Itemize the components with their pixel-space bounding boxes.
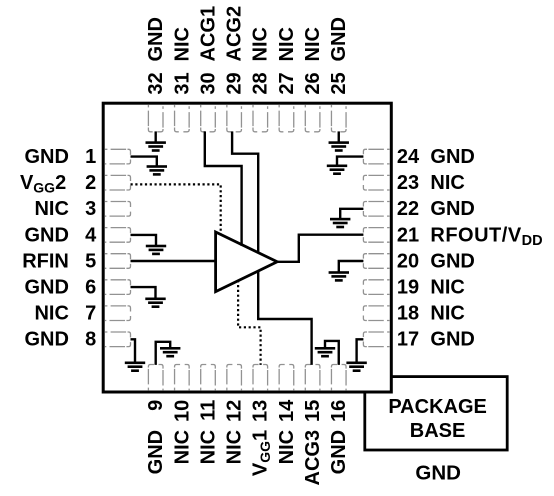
svg-text:NIC: NIC (276, 27, 298, 61)
wire pin 2 VGG2 to U1 top edge (dotted) (131, 184, 221, 234)
pad pin 12 (NIC) (227, 365, 242, 391)
svg-text:GND: GND (328, 17, 350, 61)
svg-text:20: 20 (397, 250, 419, 272)
svg-text:31: 31 (171, 72, 193, 94)
pad pin 13 (VGG1) (253, 365, 268, 391)
pad pin 27 (NIC) (279, 105, 294, 132)
svg-text:17: 17 (397, 329, 419, 351)
svg-text:ACG1: ACG1 (197, 6, 219, 62)
pad pin 1 (GND) (105, 149, 131, 164)
svg-text:10: 10 (171, 400, 193, 422)
svg-text:12: 12 (224, 400, 246, 422)
wire pin 20 GND (339, 261, 364, 273)
wire pin 13 VGG1 to U1 bottom edge (dotted) (238, 280, 261, 365)
svg-text:27: 27 (276, 72, 298, 94)
svg-text:RFOUT/VDD: RFOUT/VDD (430, 224, 542, 249)
svg-text:NIC: NIC (430, 303, 464, 325)
ground pin 16 (315, 347, 335, 358)
pad pin 26 (NIC) (305, 105, 320, 132)
svg-text:5: 5 (85, 250, 96, 272)
svg-text:RFIN: RFIN (22, 250, 69, 272)
svg-text:6: 6 (85, 277, 96, 299)
pad pin 7 (NIC) (105, 306, 131, 321)
svg-text:24: 24 (397, 146, 420, 168)
pad pin 31 (NIC) (175, 105, 190, 132)
svg-text:16: 16 (328, 400, 350, 422)
wire pin 29 ACG2 to pin 15 ACG3 (passes behind U1) (232, 131, 312, 365)
pad pin 8 (GND) (105, 332, 131, 347)
svg-text:26: 26 (302, 72, 324, 94)
svg-text:13: 13 (250, 400, 272, 422)
pad pin 17 (GND) (363, 332, 389, 347)
wire pin 30 ACG1 to U1 top edge (205, 131, 242, 245)
svg-text:25: 25 (328, 72, 350, 94)
wire U1 output to pin 21 RFOUT/VDD (277, 235, 363, 262)
ground pin 6 (145, 298, 165, 309)
svg-text:8: 8 (85, 329, 96, 351)
svg-text:18: 18 (397, 303, 419, 325)
pad pin 15 (ACG3) (305, 365, 320, 391)
svg-text:GND: GND (430, 329, 474, 351)
svg-text:4: 4 (85, 224, 97, 246)
pad pin 2 (VGG2) (105, 175, 131, 190)
ground pin 17 (346, 362, 366, 373)
pad pin 25 (GND) (331, 105, 346, 132)
pad pin 28 (NIC) (253, 105, 268, 132)
svg-text:GND: GND (24, 329, 68, 351)
pad pin 11 (NIC) (201, 365, 216, 391)
pad pin 14 (NIC) (279, 365, 294, 391)
pad pin 10 (NIC) (175, 365, 190, 391)
wire pin 32 GND stem (154, 131, 156, 142)
ground pin 22 (330, 218, 350, 229)
svg-text:GND: GND (430, 146, 474, 168)
svg-text:VGG1: VGG1 (250, 430, 274, 476)
svg-text:GND: GND (145, 17, 167, 61)
pad pin 23 (NIC) (363, 175, 389, 190)
svg-text:GND: GND (430, 198, 474, 220)
svg-text:NIC: NIC (250, 27, 272, 61)
pad pin 4 (GND) (105, 228, 131, 243)
wire pin 16 GND (325, 341, 339, 365)
svg-text:NIC: NIC (34, 303, 68, 325)
svg-text:NIC: NIC (171, 430, 193, 464)
svg-text:11: 11 (197, 400, 219, 421)
ground pin 20 (329, 271, 349, 282)
svg-text:14: 14 (276, 399, 298, 422)
ground pin 25 (329, 141, 349, 152)
svg-text:21: 21 (397, 224, 419, 246)
ground pin 4 (146, 245, 166, 256)
svg-text:BASE: BASE (410, 420, 466, 442)
svg-text:NIC: NIC (302, 27, 324, 61)
ground pin 24 (327, 165, 347, 176)
wire pin 9 GND (156, 342, 171, 365)
svg-text:22: 22 (397, 198, 419, 220)
svg-text:GND: GND (24, 224, 68, 246)
pad pin 5 (RFIN) (105, 254, 131, 269)
ground pin 1 (147, 165, 167, 176)
svg-text:1: 1 (85, 146, 96, 168)
svg-text:GND: GND (415, 462, 461, 485)
pad pin 30 (ACG1) (201, 105, 216, 132)
wire pin 25 GND stem (338, 131, 340, 142)
pad pin 21 (RFOUT/VDD) (363, 228, 389, 243)
package base box (365, 377, 507, 450)
svg-text:ACG3: ACG3 (302, 430, 324, 486)
pad pin 20 (GND) (363, 254, 389, 269)
svg-text:GND: GND (145, 430, 167, 474)
svg-text:NIC: NIC (224, 430, 246, 464)
svg-text:3: 3 (85, 198, 96, 220)
pad pin 32 (GND) (148, 105, 163, 132)
pad pin 19 (NIC) (363, 280, 389, 295)
wire pin 24 GND (337, 157, 363, 166)
svg-text:GND: GND (430, 250, 474, 272)
svg-text:GND: GND (328, 430, 350, 474)
wire pin 4 GND (131, 235, 157, 246)
svg-text:28: 28 (250, 72, 272, 94)
op-amp U1 (amplifier triangle) (216, 232, 278, 292)
svg-text:32: 32 (145, 72, 167, 94)
label PACKAGE BASE (388, 396, 487, 442)
svg-text:9: 9 (145, 400, 167, 411)
pad pin 3 (NIC) (105, 202, 131, 217)
svg-text:PACKAGE: PACKAGE (388, 396, 487, 418)
wire pin 5 RFIN to U1 input (131, 260, 217, 262)
svg-text:NIC: NIC (430, 277, 464, 299)
ground pin 32 (146, 141, 166, 152)
pad pin 16 (GND) (331, 365, 346, 391)
pad pin 18 (NIC) (363, 306, 389, 321)
svg-text:GND: GND (24, 277, 68, 299)
svg-text:VGG2: VGG2 (20, 172, 66, 196)
package outline U1 (QFN-32) (103, 103, 391, 392)
svg-text:23: 23 (397, 172, 419, 194)
pad pin 22 (GND) (363, 202, 389, 217)
svg-text:29: 29 (224, 72, 246, 94)
wire pin 1 GND (131, 157, 157, 167)
svg-text:15: 15 (302, 400, 324, 422)
ground pin 8 (125, 362, 145, 373)
pad pin 29 (ACG2) (227, 105, 242, 132)
ground pin 9 (160, 347, 180, 358)
wire pin 6 GND (131, 287, 156, 299)
svg-text:2: 2 (85, 172, 96, 194)
svg-text:19: 19 (397, 277, 419, 299)
wire pin 17 GND (357, 339, 364, 363)
svg-text:30: 30 (197, 72, 219, 94)
svg-text:GND: GND (24, 146, 68, 168)
svg-text:NIC: NIC (34, 198, 68, 220)
pad pin 6 (GND) (105, 280, 131, 295)
wire pin 22 GND (340, 209, 363, 219)
wire pin 8 GND (131, 339, 136, 363)
svg-text:NIC: NIC (171, 27, 193, 61)
svg-text:ACG2: ACG2 (224, 6, 246, 62)
svg-text:NIC: NIC (430, 172, 464, 194)
svg-text:NIC: NIC (276, 430, 298, 464)
svg-text:7: 7 (85, 303, 96, 325)
pad pin 24 (GND) (363, 149, 389, 164)
pad pin 9 (GND) (148, 365, 163, 391)
svg-text:NIC: NIC (197, 430, 219, 464)
